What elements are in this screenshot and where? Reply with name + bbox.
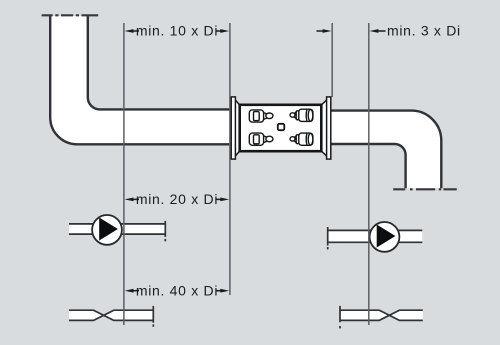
inlet pipe (vertical run + elbow + horizontal run) [50,16,231,145]
flow meter body [240,105,322,151]
valve V1 pipe end cap [152,306,154,323]
svg-text:min. 20 x Di: min. 20 x Di [136,191,218,207]
flow meter left flange plate [231,97,235,159]
valve V1 outline [69,310,153,320]
flow meter right flange neck [321,100,326,156]
valve V2 pipe end cap [339,306,341,322]
transducer upper-right [290,109,313,121]
extension line at meter inlet face (x=230) [229,23,231,295]
flow meter silhouette fill [231,97,331,159]
dimension min. 40 x Di [125,289,230,293]
extension line at outlet elbow reference (x=369) [368,23,370,325]
valve V2 (right) white fill [340,310,423,320]
flow meter right flange plate [327,97,331,159]
outlet pipe cut line (dash-dot) [393,188,457,190]
extension line at inlet flange reference (x=124) [123,23,125,325]
transducer upper-left [249,110,273,122]
valve V2 outline [340,310,423,320]
pump P1 pipe end cap [164,221,166,237]
sensor window (small square at meter centre) [278,124,285,130]
pump P1 end cap tick [164,239,166,241]
valve V1 end cap tick [152,324,154,326]
outlet pipe (horizontal run + elbow + vertical down run) [331,111,442,189]
valve V1 (left) white fill [69,310,153,320]
transducer lower-right [290,133,313,145]
pump P2 pipe end cap [327,227,329,246]
pump P2 end cap tick [327,247,329,249]
valve V2 end cap tick [339,326,341,328]
svg-text:min. 3 x Di: min. 3 x Di [387,23,461,39]
pump P2 (right) pipe [328,230,423,242]
extension line at meter outlet face (x=332) [331,23,333,97]
dimension min. 3 x Di [317,29,386,33]
inlet pipe cut line (dash-dot) [42,14,99,16]
pump P1 (left) pipe [69,224,165,234]
pump P1 circle [92,215,122,245]
pump P1 impeller triangle [99,218,118,241]
flow meter left flange neck [235,100,239,156]
pump P2 circle [370,222,400,252]
svg-text:min. 40 x Di: min. 40 x Di [136,282,218,298]
dimension min. 10 x Di [125,29,230,33]
dimension min. 20 x Di [125,198,230,202]
pump P2 impeller triangle [377,225,396,248]
svg-text:min. 10 x Di: min. 10 x Di [136,23,218,39]
transducer lower-left [249,133,273,145]
